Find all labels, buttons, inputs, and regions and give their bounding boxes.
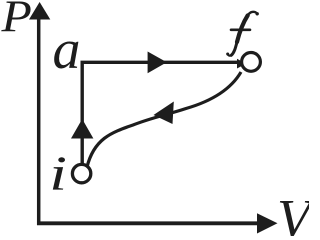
node i open circle (72, 164, 90, 182)
arrowhead right on segment a->f (148, 52, 167, 74)
wire: process path i->a->f (vertical then horizontal) (82, 62, 243, 172)
curve f->i (87, 72, 241, 167)
V axis arrowhead (257, 213, 278, 233)
arrowhead up on segment i->a (71, 119, 93, 139)
arrowhead on curve pointing left toward i (154, 102, 174, 125)
svg-text:a: a (53, 19, 81, 81)
svg-text:i: i (49, 146, 67, 200)
small arrowhead at end of a->f line at circle f (237, 59, 246, 69)
svg-text:P: P (0, 0, 31, 42)
label f (226, 12, 259, 56)
V axis (horizontal) (37, 221, 260, 225)
node f open circle (242, 53, 261, 72)
svg-text:V: V (277, 188, 309, 236)
P axis arrowhead (29, 2, 50, 20)
P axis (vertical) (37, 14, 41, 225)
